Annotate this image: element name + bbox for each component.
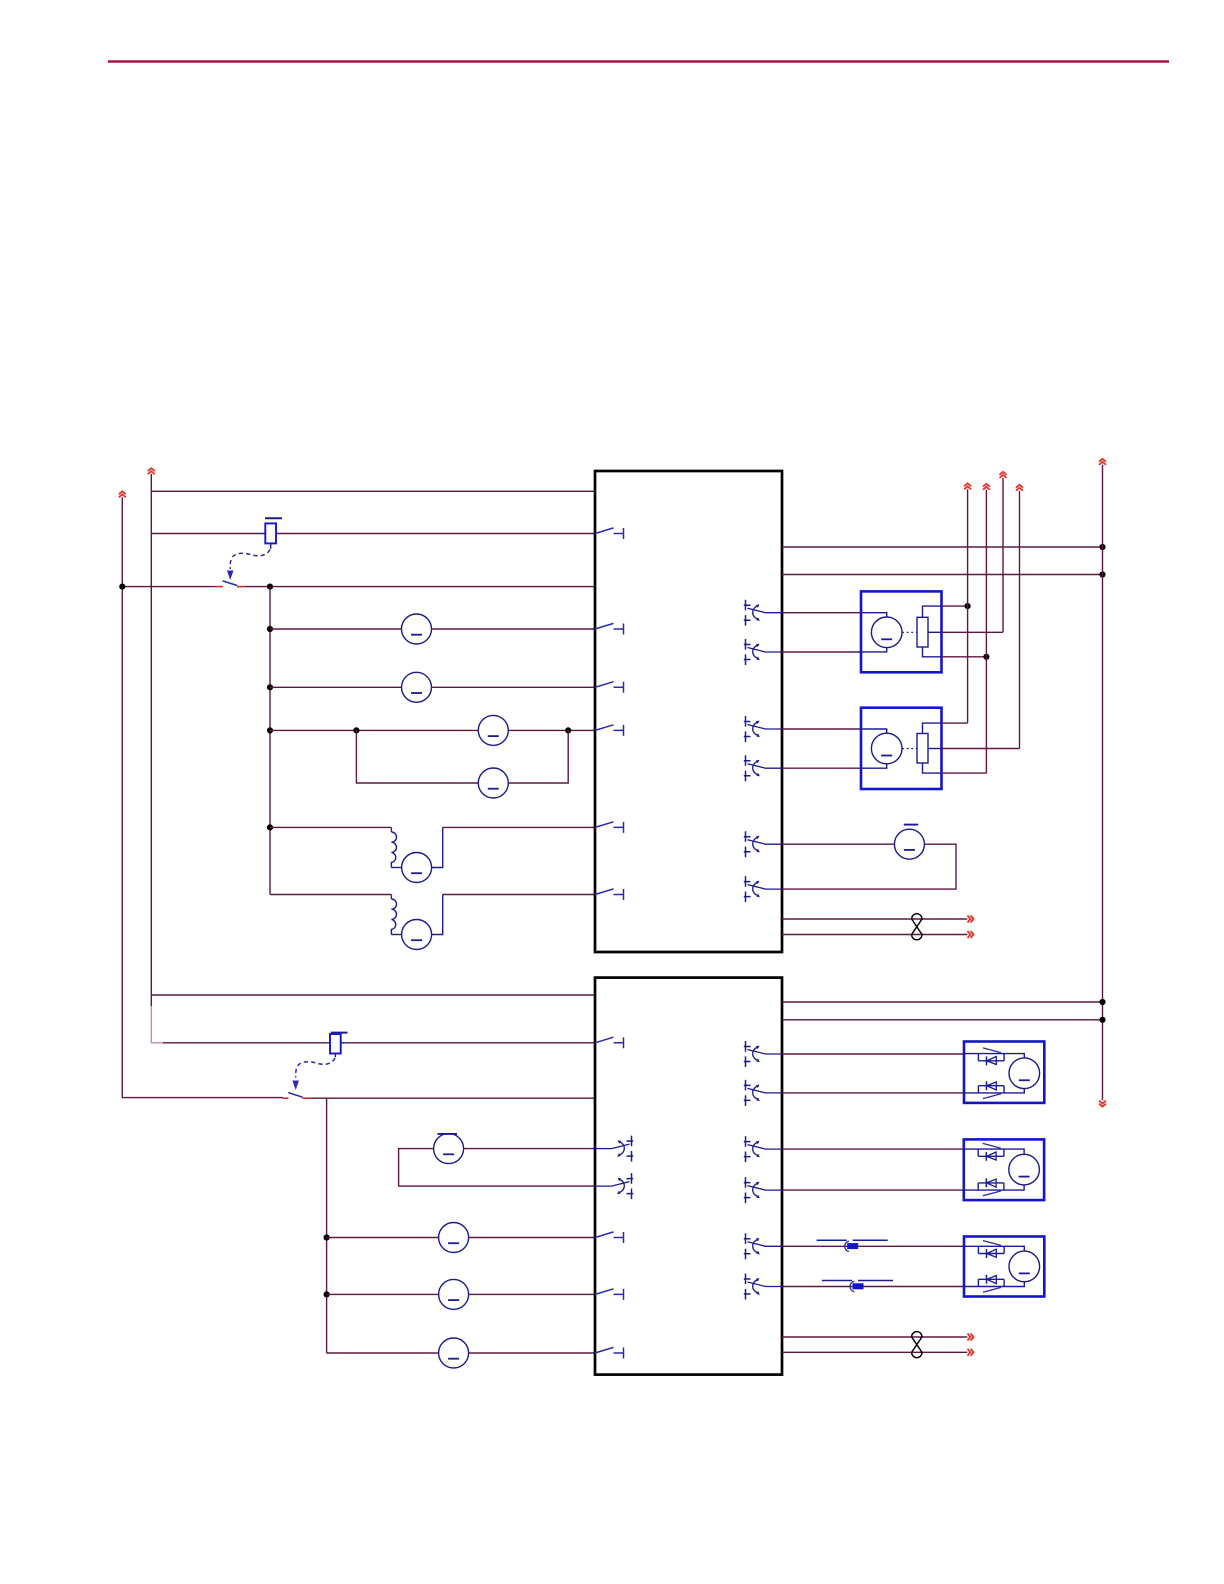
wire - row E to ECU2 pin 8: [469, 1352, 595, 1354]
junction bus B2 / row D: [324, 1291, 330, 1297]
wire - row R2 right segment to ECU1 pin 2: [280, 533, 595, 535]
junction rail D / supply row: [1099, 544, 1105, 550]
lamp E5: [439, 1223, 469, 1253]
wire - row E left segment: [327, 1352, 439, 1354]
wire - U2 driver 1 to lamp unit LU1: [782, 1053, 964, 1055]
control unit U1: [595, 471, 782, 952]
FU2 resistor bottom tap: [923, 763, 942, 773]
junction rail D / U2 supply row: [1099, 999, 1105, 1005]
wire - row R8 left segment: [270, 895, 391, 900]
junction bus B2 / row C: [324, 1234, 330, 1240]
wire - FU2 bottom tap to rail E2: [942, 772, 987, 774]
wire - U1 supply row 2 to rail D: [782, 574, 1103, 576]
suppressor Z2: [822, 1281, 893, 1292]
control unit U2: [595, 978, 782, 1375]
wire - vertical rail B x=151: [150, 474, 152, 1006]
wire - FU1 top tap to rail E1: [942, 605, 968, 607]
wire - row R1 to ECU1 pin 1: [151, 490, 595, 492]
U2 output driver 6: [744, 1274, 782, 1300]
lamp unit LU1 diode network top: [978, 1048, 1004, 1065]
wire - rail D: [1102, 465, 1104, 1100]
wire - U2 driver 6 to lamp unit LU3: [782, 1286, 964, 1288]
relay coil K2 rest-state bar: [331, 1032, 348, 1034]
wire - row D left segment: [327, 1293, 439, 1295]
power feed arrow B (x=151): [148, 468, 155, 474]
U2 output driver 3: [744, 1136, 782, 1162]
wire - motor M1 up leg: [432, 827, 443, 867]
wire - choke to motor M2: [391, 934, 402, 936]
wire - row R5 left segment: [270, 686, 402, 688]
wire - row R7 left segment: [270, 826, 391, 828]
FU1 fan motor: [871, 617, 902, 648]
fan unit FU2 housing: [861, 708, 942, 789]
FU2 fan motor: [871, 733, 902, 764]
junction rail E1 / FU1 tap: [965, 603, 971, 609]
twisted pair mark TP1: [912, 914, 922, 940]
lamp unit LU1 housing: [964, 1042, 1044, 1103]
wire - rail A lower elbow to switch S2 row: [122, 1097, 283, 1099]
lamp unit LU1 bulb: [1009, 1058, 1040, 1089]
lamp unit LU2 feed bottom: [964, 1186, 1024, 1191]
wire - row R4 to ECU1 pin 4: [432, 628, 596, 630]
U2 internal switch 4: [595, 1347, 624, 1358]
FU2 resistor mid tap: [928, 748, 942, 750]
wire - U1 driver 5 to sensor G1: [782, 843, 894, 845]
wire - U2 driver 3 to lamp unit LU2: [782, 1148, 964, 1150]
FU1 motor-resistor dotted link: [902, 631, 917, 633]
mechanical link arrowhead: [227, 571, 234, 581]
wire - row L2 left segment: [163, 1042, 326, 1044]
wire - U2 serial line 2: [782, 1351, 967, 1353]
wire - U1 driver 4 to fan unit FU2: [782, 767, 861, 769]
wire - U1 driver 3 to fan unit FU2: [782, 728, 861, 730]
wire - U2 supply row to rail D: [782, 1001, 1103, 1003]
wire - U2 driver 5 to lamp unit LU3: [782, 1245, 964, 1247]
FU1 resistor top tap: [923, 606, 942, 617]
wire - U2 supply row 2 to rail D: [782, 1019, 1103, 1021]
wire - row R3 to ECU1 pin 3: [245, 586, 595, 588]
lamp unit LU3 diode network bottom: [978, 1275, 1004, 1292]
relay coil K1 stubs: [260, 534, 280, 549]
wire - row R7 right segment to ECU1 pin 7: [443, 826, 595, 828]
wire - U1 serial line 2: [782, 934, 967, 936]
wire - U2 driver 4 to lamp unit LU2: [782, 1189, 964, 1191]
mechanical link arrowhead 2: [292, 1081, 299, 1091]
relay coil K1 rest-state bar: [265, 517, 282, 519]
wire - U2 driver 2 to lamp unit LU1: [782, 1092, 964, 1094]
switch S2 lever: [288, 1093, 302, 1098]
U1 output driver 3: [744, 716, 782, 742]
switch S1 lever: [223, 581, 238, 586]
U2 internal switch 3: [595, 1289, 624, 1300]
wire - E4 branch right leg: [508, 730, 568, 783]
lamp unit LU3 bulb: [1009, 1251, 1040, 1282]
U1 output driver 6: [744, 876, 782, 902]
sensor G2 reference bar: [438, 1133, 458, 1135]
wire - U1 driver 1 to fan unit FU1: [782, 612, 861, 614]
FU1 internal feed top: [861, 613, 887, 618]
output arrow E3: [1000, 472, 1007, 478]
sensor G2: [434, 1134, 464, 1164]
motor M2: [402, 920, 432, 950]
lamp unit LU2 diode network bottom: [978, 1178, 1004, 1195]
U1 output driver 1: [744, 600, 782, 626]
suppressor Z1: [817, 1240, 888, 1251]
lamp unit LU1 feed top: [964, 1054, 1024, 1059]
serial line 1 arrow: [968, 916, 974, 923]
U2 serial line 2 arrow: [968, 1349, 974, 1356]
lamp E6: [439, 1279, 469, 1309]
choke L1: [391, 832, 396, 868]
FU1 resistor bottom tap: [923, 647, 942, 657]
wire - sensor G1 return loop to U1 driver 6: [782, 844, 956, 889]
junction bus B1 / row R5: [267, 684, 273, 690]
lamp unit LU2 feed top: [964, 1149, 1024, 1154]
motor M1: [402, 853, 432, 883]
wire - choke to motor M1: [391, 867, 402, 869]
lamp E7: [439, 1338, 469, 1368]
switch S1 right contact stub: [237, 586, 245, 588]
sensor G1: [894, 829, 924, 859]
mechanical link dashed from K1 to switch S1: [230, 550, 270, 570]
wire - rail E2: [985, 490, 987, 773]
junction rail D / U2 supply row 2: [1099, 1017, 1105, 1023]
lamp unit LU3 feed bottom: [964, 1282, 1024, 1287]
wire - sensor G2 right lead to ECU2 pin 4: [464, 1148, 595, 1150]
lamp unit LU1 feed bottom: [964, 1088, 1024, 1093]
junction bus B1 / row R6: [267, 727, 273, 733]
U1 output driver 5: [744, 831, 782, 857]
wire - distribution bus B1: [269, 587, 271, 895]
U2 internal switch 1: [595, 1037, 624, 1048]
FU2 internal feed bottom: [861, 763, 887, 768]
U2 internal switch 2: [595, 1232, 624, 1243]
U1 internal switch 5: [595, 822, 624, 833]
wire - row D to ECU2 pin 7: [469, 1293, 595, 1295]
lamp unit LU2 housing: [964, 1139, 1044, 1200]
switch S2 right contact stub: [302, 1097, 310, 1099]
lamp E4: [478, 768, 508, 798]
wire - motor M2 up leg: [432, 895, 443, 935]
junction bus B1 / row R7: [267, 824, 273, 830]
lamp unit LU2 bulb: [1009, 1154, 1040, 1185]
power feed arrow A (x=122): [119, 491, 126, 497]
junction row R6 branch right: [565, 727, 571, 733]
U2 output driver 4: [744, 1177, 782, 1203]
relay coil K2 body: [330, 1034, 341, 1054]
FU2 motor-resistor dotted link: [902, 748, 917, 750]
wire - U1 supply row to rail D: [782, 546, 1103, 548]
wire - drop to choke L1: [390, 827, 392, 832]
lamp E2: [402, 672, 432, 702]
lamp E1: [402, 614, 432, 644]
lamp unit LU3 feed top: [964, 1246, 1024, 1251]
lamp unit LU2 diode network top: [978, 1143, 1004, 1160]
output arrow E2: [983, 484, 990, 490]
page header rule: [108, 60, 1169, 62]
junction rail E2 / FU1 bottom tap: [983, 654, 989, 660]
U1 internal switch 3: [595, 682, 624, 693]
wire - U1 driver 2 to fan unit FU1: [782, 651, 861, 653]
wire - row C left segment: [327, 1237, 439, 1239]
relay coil K2 stubs: [326, 1043, 345, 1058]
lamp unit LU3 housing: [964, 1237, 1044, 1297]
lamp unit LU3 diode network top: [978, 1241, 1004, 1258]
lamp E3: [478, 715, 508, 745]
U1 internal switch 1: [595, 528, 624, 539]
U2 output driver 5: [744, 1233, 782, 1259]
wire - row R8 right segment to ECU1 pin 8: [443, 894, 595, 896]
wire - row C to ECU2 pin 6: [469, 1237, 595, 1239]
U1 output driver 4: [744, 755, 782, 781]
wire - distribution bus B2: [326, 1098, 328, 1353]
U2 serial line 1 arrow: [968, 1334, 974, 1341]
wire - row R2 left segment: [151, 533, 259, 535]
junction rail A / row R3: [119, 584, 125, 590]
wire - rail E3: [1002, 478, 1004, 632]
switch S1 left contact stub: [215, 586, 223, 588]
FU1 resistor mid tap: [928, 631, 942, 633]
junction row R6 branch left: [353, 727, 359, 733]
FU2 internal feed top: [861, 729, 887, 734]
wire - row R6 right segment to ECU1 pin 6: [508, 729, 595, 731]
wire - rail E1: [967, 489, 969, 723]
FU1 internal feed bottom: [861, 647, 887, 652]
choke L2: [391, 899, 396, 935]
U1 internal switch 6: [595, 889, 624, 900]
wire - U1 serial line 1: [782, 918, 967, 920]
wire - row R6 left segment: [270, 729, 478, 731]
junction bus B1 / row R4: [267, 626, 273, 632]
U1 output driver 2: [744, 639, 782, 665]
output arrow E1: [964, 483, 971, 489]
wire - FU1 bottom tap to rail E2: [942, 656, 987, 658]
wire - row R5 to ECU1 pin 5: [432, 686, 596, 688]
U1 internal switch 4: [595, 725, 624, 736]
FU2 resistor top tap: [923, 723, 942, 733]
U2 output driver 2: [744, 1080, 782, 1106]
U2 input stage 1: [595, 1136, 633, 1162]
relay coil K1 body: [265, 523, 276, 543]
wire - E4 branch left leg: [356, 730, 478, 783]
power arrow rail D top: [1099, 459, 1106, 465]
wire - FU1 mid tap to rail E3: [942, 631, 1004, 633]
lamp unit LU1 diode network bottom: [978, 1081, 1004, 1098]
output arrow E4: [1016, 485, 1023, 491]
mechanical link dashed from K2 to switch S2: [296, 1058, 335, 1078]
wire - rail B pink continuation: [150, 1006, 152, 1044]
FU1 resistor R1: [917, 617, 928, 647]
wire - row L2 pink elbow: [151, 1042, 164, 1044]
wire - row L1 to ECU2 pin 1: [151, 994, 595, 996]
U2 input stage 2: [595, 1173, 633, 1199]
junction row R3 / bus B1: [267, 584, 273, 590]
sensor G1 reference bar: [904, 824, 918, 826]
U1 internal switch 2: [595, 623, 624, 634]
U2 output driver 1: [744, 1041, 782, 1067]
wire - row L3 to ECU2 pin 3: [310, 1097, 595, 1099]
FU2 resistor R2: [917, 734, 928, 764]
wire - row R4 left segment: [270, 628, 402, 630]
wire - FU2 top tap to rail E1: [942, 722, 968, 724]
wire - rail E4: [1019, 491, 1021, 749]
wire - U2 serial line 1: [782, 1336, 967, 1338]
fan unit FU1 housing: [861, 591, 942, 672]
wire - row L2 right segment to ECU2 pin 2: [345, 1042, 595, 1044]
junction rail D / supply row 2: [1099, 571, 1105, 577]
wire - sensor G2 left loop to ECU2 pin 5: [399, 1149, 595, 1187]
wire - FU2 mid tap to rail E4: [942, 748, 1020, 750]
serial line 2 arrow: [968, 931, 974, 938]
switch S2 left contact stub: [283, 1097, 289, 1099]
rail D bottom arrow: [1099, 1101, 1106, 1107]
wire - row R3 from rail A: [122, 586, 215, 588]
wire - vertical rail A x=122: [121, 497, 123, 1098]
twisted pair mark TP2: [912, 1332, 922, 1358]
